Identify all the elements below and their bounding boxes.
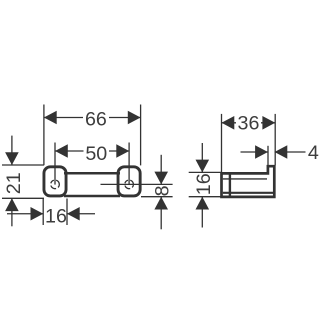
dim 66 extension right [140,105,142,166]
dim 36 line [222,122,276,124]
dim 16 line left segment [7,213,43,215]
dim 16 line right trailing segment [67,213,95,215]
svg-text:4: 4 [308,142,319,164]
dim 36 arrows [222,116,276,130]
front view: bar top edge [64,172,120,175]
dim 21 extension bottom [2,197,44,199]
right hook hole center mark [125,180,133,188]
svg-text:50: 50 [85,143,107,165]
right hook vertical centerline [128,143,130,185]
front view: right hook outline [118,167,140,196]
side view: bottom inner line [223,192,273,194]
dim 4 line left trailing segment [241,151,268,153]
svg-text:16: 16 [193,173,215,195]
svg-text:36: 36 [238,113,260,135]
side dim 16 line bottom segment [201,197,203,228]
dim 66 arrows [44,111,141,125]
side view: backplate inner edge [229,173,231,197]
side dim 16 arrows [196,160,210,210]
side dim 16 extension top [189,171,222,173]
dim 66 text [83,110,109,127]
dim 8 arrows [154,172,168,210]
dim 21 arrows [5,152,19,211]
dim 8 line top segment [160,155,162,184]
svg-text:8: 8 [152,185,174,196]
dim 4 arrows [255,145,287,159]
dim 4 extension left [267,146,269,166]
svg-text:21: 21 [3,172,25,194]
side dim 16 extension bottom [189,196,222,198]
dim 4 line right trailing segment [275,151,306,153]
dim 21 line bottom segment [11,199,13,227]
dim 16 extension left [42,199,44,226]
side view: arm lower thin line [223,178,267,180]
dim 50 text [84,144,110,160]
dim 21 line top segment [11,136,13,165]
dim 50 arrows [55,144,129,158]
dim 36 extension left [221,114,223,172]
side view: outer contour with hook tip tab [222,166,275,197]
dim 50 line [55,150,129,152]
dim 16 extension right [66,199,68,226]
bottom ext line of dim 8 [141,196,173,198]
dim 16 arrows [31,207,80,221]
dim 66 line [44,117,141,119]
dim 8 line bottom segment [160,197,162,229]
front view: bar bottom edge [64,195,120,198]
svg-text:66: 66 [85,109,107,131]
dim 21 extension top [2,164,44,166]
side dim 16 line top segment [201,143,203,172]
front view: left hook outline [44,167,66,196]
svg-text:16: 16 [45,205,67,227]
dim 36 extension right (continues to tab top as dim 4 right ext) [274,114,276,165]
left hook hole center mark [51,180,59,188]
dim 36 text [236,115,261,131]
dim 66 extension left [43,105,45,166]
left hook vertical centerline [54,143,56,185]
horizontal centerline through right hook (top ext of dim 8) [101,183,173,185]
